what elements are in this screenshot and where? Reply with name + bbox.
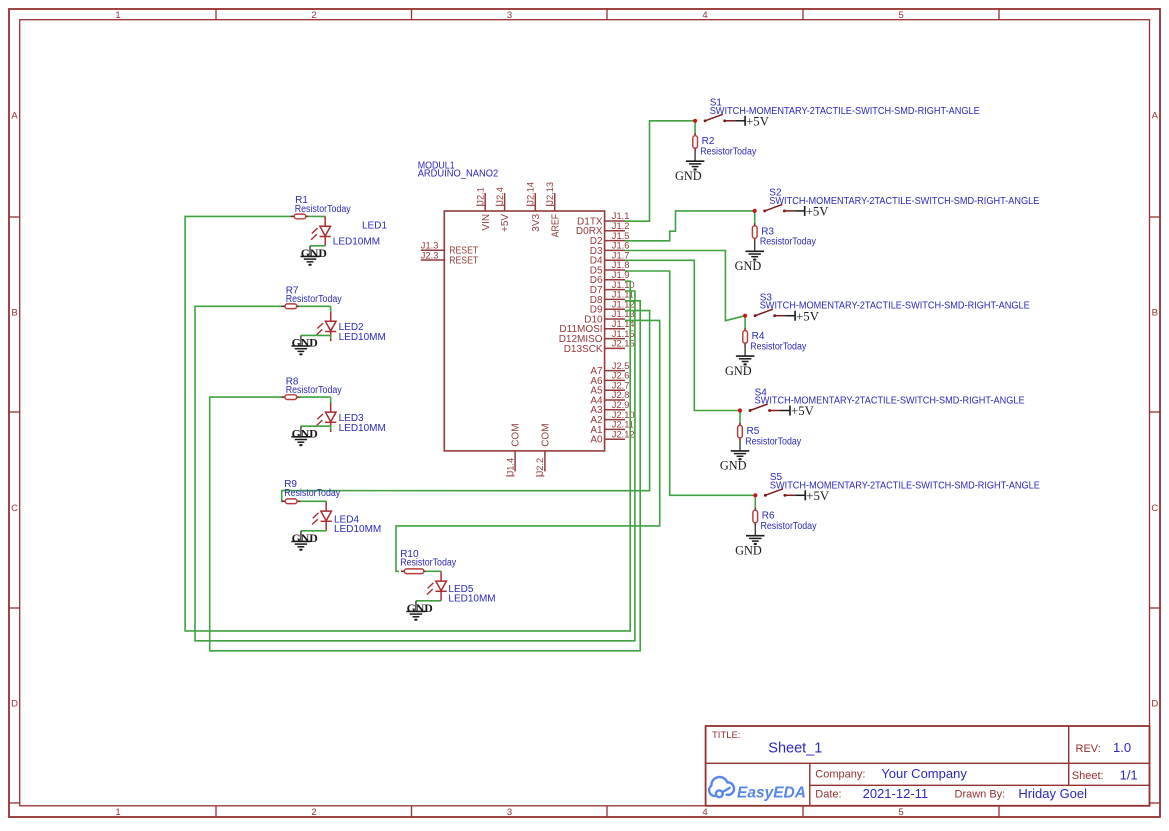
svg-text:REV:: REV: (1076, 743, 1101, 755)
svg-text:D13SCK: D13SCK (564, 344, 603, 355)
resistor R5 (739, 423, 741, 425)
pin J1.14 (D11MOSI) (605, 328, 625, 330)
pin J2.1 (VIN) (484, 193, 486, 211)
svg-text:J2.12: J2.12 (612, 429, 635, 439)
pin J2.4 (+5V) (504, 193, 506, 211)
svg-text:J2.10: J2.10 (612, 410, 635, 420)
wire D3 to S3 (625, 251, 745, 321)
wire LED1 to ground (310, 245, 325, 247)
svg-text:Company:: Company: (815, 769, 865, 781)
pin J1.5 (D2) (605, 240, 625, 242)
switch S5 (764, 494, 767, 497)
wire S2 junction to R3 (754, 211, 756, 224)
svg-text:COM: COM (511, 423, 522, 446)
svg-text:LED10MM: LED10MM (334, 524, 381, 535)
pin J1.7 (D4) (605, 259, 625, 261)
svg-text:+5V: +5V (791, 404, 815, 418)
svg-text:R5: R5 (747, 426, 760, 437)
LED LED4 (325, 501, 327, 511)
resistor R1 (291, 215, 294, 217)
svg-text:COM: COM (541, 423, 552, 446)
junction node at S5 (753, 493, 757, 497)
svg-text:GND: GND (725, 364, 752, 378)
module MODUL1 ARDUINO_NANO2 (U1) body (444, 211, 604, 451)
svg-text:J2.7: J2.7 (612, 380, 630, 390)
svg-text:J2.5: J2.5 (612, 361, 630, 371)
svg-text:R4: R4 (752, 331, 765, 342)
pin J2.13 (AREF) (554, 193, 556, 211)
resistor R2 (694, 133, 696, 135)
svg-text:GND: GND (720, 459, 747, 473)
svg-text:A0: A0 (590, 435, 603, 446)
svg-text:ResistorToday: ResistorToday (284, 488, 340, 499)
svg-text:J2.6: J2.6 (612, 371, 630, 381)
wire D5 to S5 (625, 271, 755, 495)
pin J1.2 (D0RX) (605, 230, 625, 232)
resistor R3 (754, 223, 756, 225)
pin J2.12 (A0) (605, 438, 625, 440)
svg-text:D: D (11, 699, 18, 710)
svg-text:J2.8: J2.8 (612, 390, 630, 400)
svg-text:J1.10: J1.10 (612, 280, 635, 290)
ground at LED2 (300, 335, 302, 346)
pin J2.8 (A4) (605, 399, 625, 401)
svg-text:+5V: +5V (806, 489, 830, 503)
wire D8 to R8 (210, 301, 641, 651)
svg-text:A: A (11, 111, 18, 122)
resistor R7 (282, 305, 285, 307)
svg-text:J1.15: J1.15 (612, 329, 635, 339)
svg-text:C: C (11, 503, 18, 514)
LED LED5 (440, 571, 442, 581)
svg-text:ResistorToday: ResistorToday (761, 521, 817, 532)
svg-text:C: C (1151, 503, 1158, 514)
svg-text:J1.6: J1.6 (612, 241, 630, 251)
svg-text:B: B (1152, 308, 1158, 319)
svg-text:R3: R3 (761, 226, 774, 237)
svg-text:TITLE:: TITLE: (712, 730, 741, 741)
pin J1.4 (COM) (514, 451, 516, 472)
svg-text:J1.2: J1.2 (612, 221, 630, 231)
power +5V at S5 (795, 494, 805, 496)
svg-text:VIN: VIN (481, 214, 492, 231)
wire S3 junction to R4 (744, 316, 746, 329)
svg-text:3: 3 (507, 10, 512, 21)
svg-text:J2.13: J2.13 (545, 182, 555, 205)
switch S2 (763, 209, 766, 212)
svg-text:J2.3: J2.3 (421, 250, 439, 260)
power +5V at S2 (795, 210, 805, 212)
svg-text:Drawn By:: Drawn By: (955, 788, 1006, 800)
svg-text:J2.1: J2.1 (475, 187, 485, 205)
svg-text:1/1: 1/1 (1120, 768, 1138, 783)
pin J1.11 (D8) (605, 298, 625, 300)
svg-text:GND: GND (735, 259, 762, 273)
svg-text:ResistorToday: ResistorToday (295, 204, 351, 215)
svg-text:ResistorToday: ResistorToday (745, 436, 801, 447)
svg-text:LED10MM: LED10MM (333, 236, 380, 247)
ground at LED5 (415, 601, 417, 612)
svg-text:LED1: LED1 (362, 220, 387, 231)
switch S4 (749, 409, 752, 412)
svg-text:J2.4: J2.4 (495, 187, 505, 205)
svg-text:4: 4 (702, 807, 707, 818)
switch S1 (704, 119, 707, 122)
wire LED3 to ground (301, 426, 331, 429)
svg-text:A: A (1152, 111, 1159, 122)
pin J1.1 (D1TX) (605, 220, 625, 222)
svg-text:LED10MM: LED10MM (339, 423, 386, 434)
pin J1.9 (D6) (605, 279, 625, 281)
svg-text:J2.2: J2.2 (535, 458, 545, 476)
wire LED5 to ground (416, 600, 441, 602)
wire S1 junction to R2 (694, 121, 696, 134)
wire D1TX to S1 (625, 121, 695, 221)
svg-text:RESET: RESET (449, 255, 478, 266)
wire S4 junction to R5 (739, 411, 741, 424)
svg-text:GND: GND (735, 544, 762, 558)
ground at LED1 (309, 246, 311, 257)
svg-text:ARDUINO_NANO2: ARDUINO_NANO2 (418, 169, 499, 180)
ground below R4 (744, 345, 746, 356)
wire D9 to R9 (282, 311, 650, 502)
wire D10 to R10 (396, 320, 660, 571)
wire D4 to S4 (625, 260, 740, 410)
svg-text:LED10MM: LED10MM (339, 332, 386, 343)
svg-text:R2: R2 (702, 136, 715, 147)
pin J2.5 (A7) (605, 370, 625, 372)
wire LED2 to ground (301, 335, 331, 338)
ground below R3 (754, 241, 756, 252)
svg-text:ResistorToday: ResistorToday (700, 147, 756, 158)
svg-text:J1.4: J1.4 (505, 458, 515, 476)
wire S5 junction to R6 (754, 495, 756, 508)
pin J2.2 (COM) (544, 451, 546, 472)
svg-text:LED10MM: LED10MM (448, 594, 495, 605)
pin J2.6 (A6) (605, 379, 625, 381)
svg-text:2: 2 (311, 10, 316, 21)
svg-text:GND: GND (407, 601, 433, 615)
pin J2.9 (A3) (605, 409, 625, 411)
pin J2.15 (D13SCK) (605, 347, 625, 349)
resistor R9 (282, 500, 285, 502)
junction node at S2 (753, 209, 757, 213)
svg-text:GND: GND (292, 531, 318, 545)
svg-text:2: 2 (311, 807, 316, 818)
LED LED2 (330, 311, 332, 321)
pin J2.10 (A2) (605, 419, 625, 421)
svg-text:2021-12-11: 2021-12-11 (863, 786, 929, 801)
ground below R2 (694, 150, 696, 161)
power +5V at S1 (735, 120, 745, 122)
svg-text:J1.5: J1.5 (612, 231, 630, 241)
svg-text:B: B (11, 308, 17, 319)
svg-text:3V3: 3V3 (531, 213, 542, 231)
svg-text:GND: GND (292, 336, 318, 350)
pin J1.12 (D9) (605, 308, 625, 310)
svg-text:J2.9: J2.9 (612, 400, 630, 410)
wire R1 to LED1 (308, 215, 325, 217)
svg-text:ResistorToday: ResistorToday (760, 237, 816, 248)
wire D2 to S2 (625, 211, 755, 241)
svg-text:+5V: +5V (500, 214, 511, 232)
ground below R6 (754, 525, 756, 536)
LED LED3 (330, 402, 332, 412)
svg-text:Your Company: Your Company (881, 766, 967, 781)
svg-text:4: 4 (702, 10, 707, 21)
svg-text:GND: GND (675, 169, 702, 183)
svg-text:J1.7: J1.7 (612, 250, 630, 260)
svg-text:J2.14: J2.14 (526, 182, 536, 205)
resistor R6 (754, 508, 756, 510)
svg-text:AREF: AREF (550, 214, 561, 238)
svg-text:R6: R6 (762, 511, 775, 522)
pin J2.11 (A1) (605, 428, 625, 430)
svg-text:ResistorToday: ResistorToday (400, 557, 456, 568)
svg-text:ResistorToday: ResistorToday (286, 294, 342, 305)
pin J1.13 (D10) (605, 318, 625, 320)
svg-text:ResistorToday: ResistorToday (750, 342, 806, 353)
svg-text:1.0: 1.0 (1113, 740, 1131, 755)
wire D6 to R1 (185, 216, 630, 631)
resistor R4 (744, 328, 746, 330)
switch S3 (754, 314, 757, 317)
wire LED4 to ground (301, 530, 326, 532)
svg-text:Sheet:: Sheet: (1072, 770, 1104, 782)
pin J2.7 (A5) (605, 389, 625, 391)
wire D7 to R7 (195, 291, 635, 641)
svg-text:5: 5 (898, 807, 903, 818)
svg-text:+5V: +5V (746, 114, 770, 128)
svg-text:+5V: +5V (796, 309, 820, 323)
wire R10 to LED5 (426, 570, 442, 572)
svg-text:Hriday Goel: Hriday Goel (1018, 786, 1087, 801)
svg-text:GND: GND (292, 426, 318, 440)
svg-text:1: 1 (115, 10, 120, 21)
ground at LED3 (300, 426, 302, 437)
svg-text:J2.15: J2.15 (612, 339, 635, 349)
power +5V at S3 (785, 315, 795, 317)
pin J1.3 (RESET) (421, 249, 445, 251)
junction node at S3 (743, 314, 747, 318)
power +5V at S4 (780, 410, 790, 412)
svg-text:Date:: Date: (815, 788, 841, 800)
svg-text:EasyEDA: EasyEDA (737, 785, 806, 802)
svg-text:+5V: +5V (806, 205, 830, 219)
svg-text:ResistorToday: ResistorToday (286, 385, 342, 396)
resistor R8 (282, 396, 285, 398)
svg-text:J1.3: J1.3 (421, 241, 439, 251)
ground at LED4 (300, 531, 302, 542)
svg-text:3: 3 (507, 807, 512, 818)
svg-text:5: 5 (898, 10, 903, 21)
pin J2.14 (3V3) (534, 193, 536, 211)
junction node at S1 (693, 119, 697, 123)
pin J2.3 (RESET) (421, 259, 445, 261)
resistor R10 (401, 570, 404, 572)
pin J1.15 (D12MISO) (605, 338, 625, 340)
pin J1.6 (D3) (605, 249, 625, 251)
svg-text:1: 1 (115, 807, 120, 818)
wire R8 to LED3 (299, 396, 331, 398)
wire R9 to LED4 (301, 500, 327, 502)
junction node at S4 (738, 408, 742, 412)
wire R7 to LED2 (299, 305, 331, 307)
svg-text:J1.1: J1.1 (612, 211, 630, 221)
svg-text:Sheet_1: Sheet_1 (768, 741, 822, 757)
svg-text:D: D (1151, 699, 1158, 710)
pin J1.10 (D7) (605, 289, 625, 291)
svg-text:GND: GND (301, 246, 327, 260)
LED LED1 (324, 217, 326, 227)
ground below R5 (739, 440, 741, 451)
pin J1.8 (D5) (605, 269, 625, 271)
svg-text:J1.8: J1.8 (612, 260, 630, 270)
